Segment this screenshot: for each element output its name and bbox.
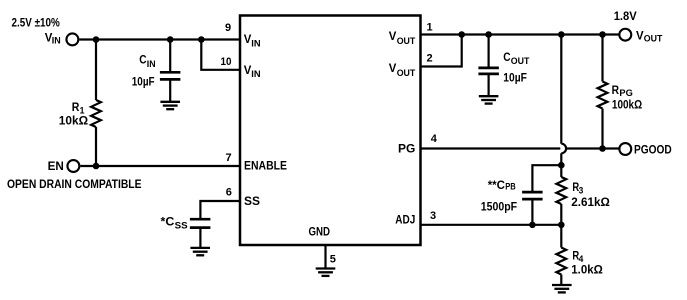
wire VOUT rail pin 1 [421,33,619,35]
svg-text:10µF: 10µF [503,70,527,84]
wire R4 top lead [560,225,562,248]
svg-text:V: V [389,61,397,75]
node VIN/CIN junction [167,36,174,43]
capacitor CPB 1500pF [481,178,543,214]
capacitor CSS soft-start [161,214,211,231]
wire CIN bottom lead [169,79,171,101]
wire VOUT branch down to R3 [560,35,562,144]
svg-text:GND: GND [309,224,331,238]
svg-text:5: 5 [330,253,336,265]
node COUT/VOUT junction [485,31,492,38]
pin 10 label VIN [221,56,261,80]
node RPG/VOUT junction [599,31,606,38]
node VIN/R1 junction [93,36,100,43]
wire hop to node lead [560,153,562,177]
svg-text:V: V [244,63,252,77]
svg-text:100kΩ: 100kΩ [612,97,643,111]
wire RPG bottom lead [601,109,603,149]
node CPB/ADJ junction [529,222,536,229]
wire CPB top link [532,165,561,192]
svg-text:IN: IN [52,35,61,46]
resistor R1 10kΩ [59,100,101,128]
svg-text:PB: PB [505,181,516,192]
svg-text:**C: **C [488,178,506,192]
wire CSS bottom lead [199,228,201,248]
svg-text:IN: IN [147,59,156,70]
node R3-branch/VOUT junction [558,31,565,38]
svg-text:C: C [139,53,147,67]
svg-text:OUT: OUT [511,56,530,67]
svg-text:V: V [389,29,397,43]
svg-text:1.8V: 1.8V [614,9,637,23]
resistor RPG 100kΩ [598,82,643,112]
IC U1 regulator body [240,16,421,246]
wire ADJ rail pin 3 [421,224,562,226]
svg-text:*C: *C [161,214,175,228]
svg-text:4: 4 [431,133,438,145]
ground under COUT [479,96,499,103]
pin 6 label SS [226,186,260,208]
svg-text:1500pF: 1500pF [481,199,517,213]
svg-text:R: R [612,83,620,97]
svg-text:1: 1 [427,21,433,33]
svg-text:EN: EN [48,159,64,173]
svg-text:IN: IN [251,69,260,80]
svg-text:2.5V ±10%: 2.5V ±10% [12,16,61,30]
pin 5 GND lead [326,245,336,269]
svg-text:SS: SS [244,194,260,208]
terminal VOUT output [619,28,662,44]
capacitor COUT 10µF [478,50,529,85]
svg-text:C: C [503,50,511,64]
wire COUT top lead [488,35,490,68]
pin 9 label VIN [225,22,261,49]
wire R1 top lead [95,40,97,101]
pin 3 label ADJ [395,210,436,227]
node VIN/pin10 junction [198,36,205,43]
pin 4 label PG [398,133,438,155]
svg-text:PG: PG [398,141,415,155]
wire SS to CSS [200,201,240,219]
terminal PGOOD output [619,143,672,157]
svg-text:9: 9 [225,22,231,34]
node RPG/PG junction [599,145,606,152]
svg-text:OUT: OUT [397,68,416,79]
ground under CIN [160,102,180,109]
svg-text:ADJ: ADJ [395,213,415,227]
svg-text:10kΩ: 10kΩ [59,114,89,128]
node pin2/VOUT junction [458,31,465,38]
svg-text:OUT: OUT [397,36,416,47]
ground under CSS [190,248,210,255]
wire COUT bottom lead [488,74,490,96]
svg-text:7: 7 [226,152,232,164]
pin 7 label ENABLE [226,152,288,173]
ground under R4 [552,285,572,292]
resistor R3 2.61kΩ [556,177,610,209]
svg-text:IN: IN [251,38,260,49]
wire PG rail pin 4 [421,147,619,149]
wire R1 bottom lead [95,127,97,166]
wire hop over PG rail (no connect) [560,144,566,154]
wire VIN rail to pin 9 [79,38,240,40]
wire CIN top lead [169,40,171,73]
svg-text:ENABLE: ENABLE [244,159,287,173]
svg-text:1.0kΩ: 1.0kΩ [571,263,603,277]
node R3/CPB junction [558,162,565,169]
resistor R4 1.0kΩ [556,248,603,277]
terminal VIN input [45,30,79,46]
svg-text:2.61kΩ: 2.61kΩ [571,195,610,209]
capacitor CIN 10µF [132,53,181,89]
svg-text:V: V [636,28,644,42]
wire pin 10 riser [201,40,240,70]
svg-text:2: 2 [427,53,433,65]
svg-text:PGOOD: PGOOD [634,143,672,157]
svg-text:SS: SS [175,221,188,232]
wire EN rail to pin 7 [80,165,240,167]
svg-text:6: 6 [226,186,232,198]
svg-text:OUT: OUT [644,34,663,45]
svg-text:V: V [244,32,252,46]
svg-text:OPEN DRAIN COMPATIBLE: OPEN DRAIN COMPATIBLE [7,177,142,191]
svg-text:10µF: 10µF [132,74,155,88]
wire CPB bottom lead [531,199,533,225]
ground under pin 5 [316,269,336,276]
svg-text:R: R [72,100,80,114]
wire R3 bottom lead [560,204,562,225]
pin 2 label VOUT [389,53,433,79]
terminal EN input [48,159,80,173]
svg-text:3: 3 [430,210,436,222]
pin 1 label VOUT [389,21,433,47]
svg-text:10: 10 [221,56,232,68]
wire RPG top lead [601,35,603,82]
node EN/R1 junction [93,163,100,170]
wire R4 bottom lead [560,275,562,286]
node R3/R4/ADJ junction [558,222,565,229]
wire pin 2 jog to VOUT rail [421,35,462,67]
